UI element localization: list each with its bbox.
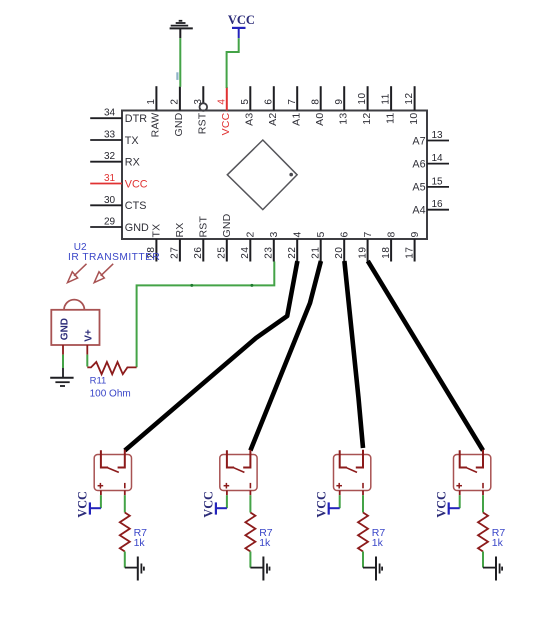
S4 top-left pin (460, 450, 467, 467)
svg-text:20: 20 (334, 246, 345, 258)
svg-text:GND: GND (125, 222, 149, 234)
svg-text:A3: A3 (244, 113, 256, 126)
svg-text:1: 1 (146, 98, 157, 104)
pin 33 (TX) left lead (90, 139, 122, 141)
svg-text:1k: 1k (134, 537, 146, 549)
wire to R7 (249, 495, 251, 512)
svg-text:VCC: VCC (202, 491, 216, 517)
S3 minus pin tick (362, 483, 364, 488)
pin 34 (DTR) left lead (90, 117, 122, 119)
VCC symbol (89, 502, 91, 514)
svg-text:18: 18 (381, 246, 392, 258)
svg-text:2: 2 (170, 98, 181, 104)
S2 minus pin tick (249, 483, 251, 488)
wire to R7 (482, 495, 484, 512)
svg-text:A5: A5 (412, 182, 425, 194)
svg-text:4: 4 (291, 231, 303, 237)
ground symbol (rotated) (495, 557, 497, 581)
S2 top-right pin (243, 450, 250, 468)
S3 bottom-left lead (339, 491, 341, 496)
svg-text:6: 6 (263, 98, 274, 104)
svg-text:VCC: VCC (76, 491, 90, 517)
svg-text:VCC: VCC (125, 178, 148, 190)
pin 8 (A0) top stub (320, 86, 322, 110)
svg-text:10: 10 (357, 92, 368, 104)
svg-text:1k: 1k (492, 537, 504, 549)
svg-text:16: 16 (431, 199, 443, 210)
IC U1 orientation diamond (227, 140, 297, 210)
pin 14 (A6) right lead (427, 163, 449, 165)
ground stem (483, 567, 496, 569)
resistor R11 (87, 362, 136, 374)
transmitter dome arc (64, 300, 84, 310)
S4 minus pin tick (482, 483, 484, 488)
svg-text:RX: RX (125, 157, 140, 169)
resistor R7 (120, 513, 130, 552)
svg-text:33: 33 (104, 130, 116, 141)
svg-text:RAW: RAW (150, 113, 162, 138)
svg-text:14: 14 (431, 153, 443, 164)
pin 20 (6) bottom stub (343, 239, 345, 262)
switch S4 body (454, 455, 491, 491)
svg-text:19: 19 (357, 246, 368, 258)
ground symbol (under U2) (50, 377, 73, 379)
svg-text:GND: GND (221, 213, 233, 237)
svg-text:GND: GND (173, 112, 185, 136)
S2 top-left pin (227, 450, 234, 467)
svg-text:4: 4 (216, 98, 227, 104)
svg-text:2: 2 (245, 231, 257, 237)
svg-text:5: 5 (315, 231, 327, 237)
U2 GND pin lead (62, 345, 64, 355)
wire pin 21 to SW2 (250, 261, 321, 451)
pin 7 (A1) top stub (296, 86, 298, 110)
pin 25 (GND) bottom stub (226, 239, 228, 262)
svg-text:15: 15 (431, 176, 443, 187)
wire pin 23 to R11 (137, 262, 275, 368)
pin 18 (8) bottom stub (390, 239, 392, 262)
wire to R7 (124, 495, 126, 512)
pin 17 (9) bottom stub (414, 239, 416, 262)
svg-text:26: 26 (193, 246, 204, 258)
wire R7 to ground (482, 552, 484, 568)
svg-text:6: 6 (338, 231, 350, 237)
pin 9 (13) top stub (343, 86, 345, 110)
pin 2 (GND) top stub (179, 87, 181, 111)
svg-text:V+: V+ (83, 329, 94, 342)
svg-text:GND: GND (60, 318, 71, 340)
pin 15 (A5) right lead (427, 186, 449, 188)
svg-text:31: 31 (104, 173, 116, 184)
wire to R7 (362, 495, 364, 512)
pin 13 (A7) right lead (427, 140, 449, 142)
svg-text:3: 3 (268, 231, 280, 237)
svg-text:A0: A0 (314, 113, 326, 126)
small net tick (176, 72, 178, 80)
VCC symbol (215, 502, 217, 514)
wire pin 22 to SW1 (125, 261, 298, 451)
svg-text:1k: 1k (372, 537, 384, 549)
switch S1 body (94, 455, 131, 491)
ground symbol (top, flipped) (170, 27, 193, 29)
svg-text:TX: TX (151, 224, 163, 238)
svg-text:CTS: CTS (125, 200, 147, 212)
pin 10 (12) top stub (367, 86, 369, 110)
transmitter body U2 (51, 310, 99, 345)
ground stem (250, 567, 263, 569)
S2 bottom-right lead (249, 491, 251, 496)
pin 24 (2) bottom stub (249, 239, 251, 262)
svg-text:VCC: VCC (228, 13, 255, 27)
resistor R7 (478, 513, 488, 552)
svg-text:RST: RST (197, 112, 209, 134)
wire pin 19 to SW4 (368, 261, 483, 451)
ground symbol (rotated) (137, 557, 139, 581)
S1 plus mark (98, 485, 104, 487)
svg-text:5: 5 (240, 98, 251, 104)
wire R7 to ground (124, 552, 126, 568)
junction dot B (250, 284, 253, 287)
svg-text:11: 11 (381, 93, 392, 105)
pin 22 (4) bottom stub (296, 239, 298, 262)
svg-text:27: 27 (170, 246, 181, 258)
svg-text:30: 30 (104, 195, 116, 206)
S4 switch lever (465, 467, 477, 472)
diamond pin-1 dot (289, 173, 293, 177)
svg-text:7: 7 (362, 231, 374, 237)
pin 29 (GND) left lead (90, 226, 122, 228)
svg-text:8: 8 (385, 231, 397, 237)
pin 30 (CTS) left lead (90, 204, 122, 206)
svg-text:R11: R11 (90, 376, 107, 387)
RST active-low bubble pin 3 (200, 103, 208, 111)
svg-text:10: 10 (408, 113, 420, 125)
svg-text:13: 13 (337, 113, 349, 125)
S4 bottom-right lead (482, 491, 484, 496)
VCC symbol pin 4 (232, 27, 246, 29)
resistor R7 (245, 513, 255, 552)
S1 top-left pin (101, 450, 108, 467)
S3 bottom-right lead (362, 491, 364, 496)
pin 23 (3) bottom stub (273, 239, 275, 262)
svg-text:12: 12 (361, 113, 373, 125)
svg-text:32: 32 (104, 151, 116, 162)
svg-text:9: 9 (334, 98, 345, 104)
svg-text:17: 17 (404, 246, 415, 258)
S2 bottom-left lead (226, 491, 228, 496)
S3 top-right pin (356, 450, 363, 468)
pin 3 (RST) top stub (202, 86, 204, 103)
pin 26 (RST) bottom stub (202, 239, 204, 262)
wire ground to pin 2 (179, 38, 181, 87)
wire pin 20 to SW3 (344, 261, 363, 448)
VCC symbol (448, 502, 450, 514)
ground symbol (rotated) (375, 557, 377, 581)
svg-text:A6: A6 (412, 158, 425, 170)
svg-text:7: 7 (287, 98, 298, 104)
svg-text:23: 23 (264, 246, 275, 258)
svg-text:RST: RST (198, 216, 210, 238)
svg-text:13: 13 (431, 130, 443, 141)
S2 switch lever (232, 467, 244, 472)
svg-text:VCC: VCC (435, 491, 449, 517)
ground stem (62, 368, 64, 378)
wire VCC to pin 4 (227, 38, 239, 88)
svg-text:11: 11 (384, 113, 396, 124)
svg-text:34: 34 (104, 108, 116, 119)
U2 V+ pin lead (86, 345, 88, 355)
svg-text:1k: 1k (259, 537, 271, 549)
VCC symbol (328, 502, 330, 514)
wire gnd segment (62, 355, 64, 368)
S3 top-left pin (340, 450, 347, 467)
svg-text:A2: A2 (267, 113, 279, 126)
svg-text:22: 22 (287, 246, 298, 258)
emission arrow 2 (94, 264, 113, 283)
svg-text:25: 25 (217, 246, 228, 258)
S4 top-right pin (476, 450, 483, 468)
pin 27 (RX) bottom stub (179, 239, 181, 262)
wire to VCC (339, 495, 341, 508)
svg-text:8: 8 (310, 98, 321, 104)
S1 bottom-right lead (124, 491, 126, 496)
wire R7 to ground (362, 552, 364, 568)
pin 31 (VCC) left lead (90, 183, 122, 185)
svg-text:9: 9 (409, 231, 421, 237)
ground stem (363, 567, 376, 569)
svg-text:DTR: DTR (125, 113, 147, 125)
svg-text:24: 24 (240, 246, 251, 258)
S4 plus mark (456, 485, 462, 487)
svg-text:VCC: VCC (220, 112, 232, 135)
svg-text:100 Ohm: 100 Ohm (90, 388, 131, 399)
svg-text:A1: A1 (290, 113, 302, 126)
wire to VCC (459, 495, 461, 508)
resistor R7 (358, 513, 368, 552)
pin 19 (7) bottom stub (367, 239, 369, 262)
S1 top-right pin (118, 450, 125, 468)
svg-text:29: 29 (104, 217, 116, 228)
junction dot A (190, 284, 193, 287)
wire to VCC (226, 495, 228, 508)
pin 4 (VCC) top stub (226, 87, 228, 111)
S1 switch lever (106, 467, 118, 472)
pin 1 (RAW) top stub (155, 86, 157, 110)
pin 5 (A3) top stub (249, 86, 251, 110)
S3 plus mark (336, 485, 342, 487)
S1 minus pin tick (124, 483, 126, 488)
svg-text:RX: RX (174, 223, 186, 238)
S3 switch lever (345, 467, 357, 472)
svg-text:A4: A4 (412, 205, 425, 217)
pin 32 (RX) left lead (90, 161, 122, 163)
wire R7 to ground (249, 552, 251, 568)
svg-text:TX: TX (125, 135, 139, 147)
S2 plus mark (224, 485, 230, 487)
pin 6 (A2) top stub (273, 86, 275, 110)
ground symbol (rotated) (262, 557, 264, 581)
pin 28 (TX) bottom stub (155, 239, 157, 262)
switch S2 body (220, 455, 257, 491)
S4 bottom-left lead (459, 491, 461, 496)
emission arrow 1 (68, 264, 87, 283)
svg-text:21: 21 (311, 246, 322, 258)
pin 21 (5) bottom stub (320, 239, 322, 262)
pin 12 (10) top stub (414, 86, 416, 110)
S1 bottom-left lead (100, 491, 102, 496)
IC U1 body (122, 111, 427, 240)
wire v+ segment (86, 355, 88, 367)
pin 11 (11) top stub (390, 86, 392, 110)
svg-text:12: 12 (404, 92, 415, 104)
ground stem (125, 567, 138, 569)
switch S3 body (334, 455, 371, 491)
svg-text:VCC: VCC (315, 491, 329, 517)
svg-text:A7: A7 (412, 135, 425, 147)
wire to VCC (100, 495, 102, 508)
pin 16 (A4) right lead (427, 209, 449, 211)
svg-text:IR TRANSMITTER: IR TRANSMITTER (68, 252, 160, 263)
